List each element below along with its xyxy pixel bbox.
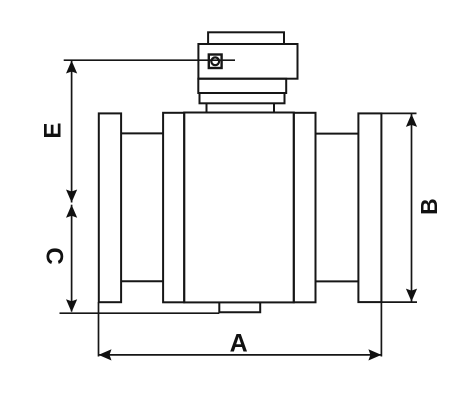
converter lower band bbox=[200, 93, 285, 103]
flange left bbox=[99, 113, 121, 302]
pipe right top wire bbox=[316, 133, 359, 135]
converter neck bbox=[207, 103, 275, 113]
converter lid bbox=[208, 32, 284, 44]
extension line C bottom bbox=[60, 312, 220, 314]
pipe left bottom wire bbox=[121, 280, 163, 282]
dimension line A bbox=[99, 354, 382, 356]
flange right bbox=[358, 113, 381, 302]
arrowhead A left bbox=[99, 349, 112, 360]
body right plate bbox=[294, 113, 316, 302]
extension line A right bbox=[380, 302, 382, 356]
svg-text:B: B bbox=[416, 198, 442, 215]
svg-text:C: C bbox=[41, 247, 68, 264]
arrowhead C down bbox=[66, 299, 77, 312]
arrowhead E down bbox=[66, 190, 77, 203]
svg-text:A: A bbox=[230, 330, 248, 358]
body main shell bbox=[184, 113, 294, 303]
extension line E top (centerline through window) bbox=[64, 59, 235, 61]
dimension line C bbox=[71, 205, 73, 312]
display window square bbox=[209, 55, 222, 69]
converter housing bbox=[198, 44, 297, 79]
svg-text:E: E bbox=[40, 123, 67, 139]
display window circle bbox=[211, 57, 219, 65]
arrowhead B down bbox=[406, 289, 417, 302]
converter upper band bbox=[198, 79, 286, 93]
pipe left top wire bbox=[121, 132, 163, 134]
arrowhead E up bbox=[66, 61, 77, 74]
dimension line E bbox=[71, 61, 73, 203]
pipe right bottom wire bbox=[316, 280, 359, 282]
arrowhead A right bbox=[368, 349, 381, 360]
extension line B bottom bbox=[381, 301, 417, 303]
arrowhead C up bbox=[66, 205, 77, 218]
base pad bbox=[219, 302, 260, 312]
extension line B top bbox=[381, 112, 416, 114]
arrowhead B up bbox=[406, 114, 417, 127]
dimension line B bbox=[411, 114, 413, 302]
extension line A left bbox=[98, 302, 100, 356]
body left plate bbox=[163, 113, 184, 302]
